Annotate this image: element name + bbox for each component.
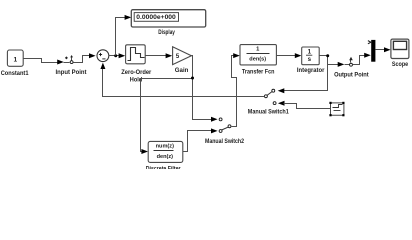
- svg-text:s: s: [308, 56, 312, 63]
- node Output Point marker: [334, 57, 369, 79]
- svg-text:0.0000e+000: 0.0000e+000: [136, 15, 176, 21]
- node Input Point marker: [56, 55, 88, 76]
- svg-text:Transfer Fcn: Transfer Fcn: [242, 68, 275, 75]
- mux block: [368, 40, 376, 62]
- wire Manual Switch2 output to Transfer Fcn: [232, 53, 240, 126]
- wire Mux to Scope: [376, 47, 391, 52]
- block signal source (selected): [329, 102, 344, 116]
- block Zero-Order Hold: [121, 45, 151, 84]
- svg-text:Integrator: Integrator: [297, 67, 325, 74]
- wire branch to Display: [116, 15, 132, 56]
- svg-text:den(s): den(s): [249, 57, 266, 63]
- switch Manual Switch2: [205, 118, 244, 145]
- switch Manual Switch1: [248, 89, 289, 115]
- sum block: [97, 50, 109, 62]
- block Constant1: [1, 50, 29, 77]
- wire Integrator branch to Output Point: [328, 62, 345, 67]
- wire Sum output to Zero-Order Hold: [109, 53, 126, 58]
- svg-text:1: 1: [308, 49, 312, 56]
- block Discrete Filter: [146, 141, 183, 172]
- wire Gain output down to Manual Switch2 upper input: [192, 56, 218, 122]
- wire Zero-Order Hold to Gain: [146, 53, 173, 58]
- block Transfer Fcn: [240, 45, 276, 76]
- svg-text:num(z): num(z): [156, 144, 174, 150]
- svg-text:den(z): den(z): [157, 154, 174, 160]
- svg-text:1: 1: [13, 56, 17, 63]
- block Gain: [173, 47, 192, 74]
- svg-text:Scope: Scope: [392, 61, 409, 68]
- wire Discrete Filter output to Manual Switch2 lower input: [183, 128, 218, 151]
- block Scope: [391, 39, 409, 68]
- wire Integrator output down to Manual Switch1 upper input: [278, 54, 330, 93]
- svg-text:Manual Switch2: Manual Switch2: [205, 138, 244, 145]
- svg-text:Gain: Gain: [175, 67, 189, 74]
- svg-text:Manual Switch1: Manual Switch1: [248, 109, 289, 116]
- svg-text:Zero-Order: Zero-Order: [121, 69, 151, 76]
- wire Constant1 to Input Point: [24, 59, 64, 65]
- svg-text:Discrete Filter: Discrete Filter: [146, 166, 181, 169]
- wire Input Point to Sum: [74, 53, 96, 62]
- wire Output Point to Mux: [353, 53, 371, 65]
- svg-text:Output Point: Output Point: [334, 72, 369, 79]
- svg-text:Display: Display: [158, 29, 175, 36]
- wire branch from Gain line to Discrete Filter: [141, 77, 195, 155]
- wire Manual Switch1 output back to Sum: [100, 63, 264, 97]
- svg-text:Input Point: Input Point: [56, 69, 88, 76]
- wire Transfer Fcn to Integrator: [277, 53, 302, 58]
- wire source block to Manual Switch1 lower input: [284, 104, 331, 109]
- block Display: [131, 10, 205, 36]
- svg-text:Constant1: Constant1: [1, 70, 29, 77]
- block Integrator: [297, 47, 325, 74]
